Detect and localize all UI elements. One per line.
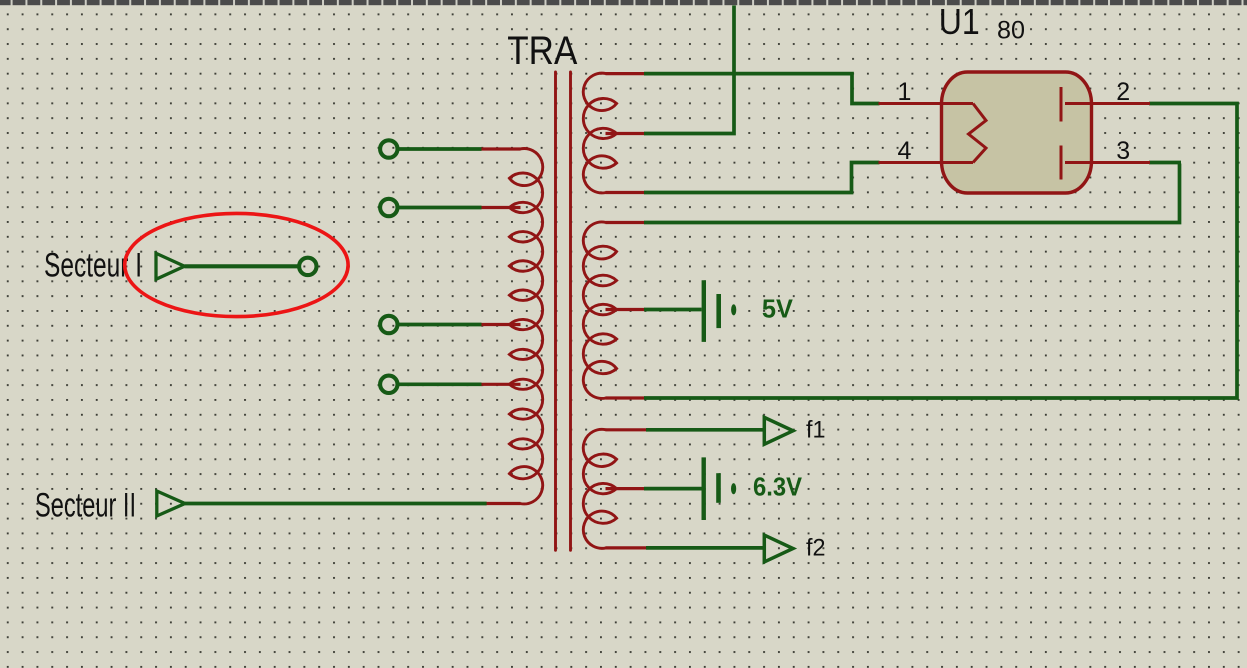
f2 output triangle bbox=[764, 535, 793, 562]
wire 5V bottom to tube pin 2 bbox=[644, 104, 1237, 399]
red wire into pin 1 bbox=[879, 102, 974, 105]
red highlight ellipse bbox=[125, 213, 348, 316]
TRA primary pin stub 1 bbox=[481, 147, 521, 150]
svg-text:4: 4 bbox=[898, 137, 912, 165]
tube U1 body bbox=[942, 72, 1092, 193]
TRA primary pin stub 3 bbox=[481, 323, 521, 326]
svg-text:1: 1 bbox=[898, 78, 912, 106]
svg-text:f1: f1 bbox=[806, 416, 826, 443]
primary terminal circle T2 bbox=[380, 199, 397, 216]
wire f1 bbox=[646, 428, 764, 432]
svg-text:2: 2 bbox=[1116, 78, 1130, 106]
wire 5V centre tap bbox=[644, 308, 702, 312]
svg-text:TRA: TRA bbox=[507, 29, 578, 73]
wire HT centre tap bbox=[644, 6, 734, 134]
U1 anode plate (pin 2) bbox=[1060, 87, 1063, 122]
battery cell B1 short plate bbox=[716, 294, 721, 328]
TRA primary winding bbox=[509, 149, 542, 504]
primary terminal circle T4 bbox=[380, 376, 397, 393]
wire HT top to tube pin 1 bbox=[644, 74, 880, 104]
primary terminal circle T1 bbox=[380, 140, 397, 157]
wire terminal T3 to TRA primary tap bbox=[398, 323, 482, 327]
TRA secondary HT winding bbox=[583, 73, 616, 193]
Secteur I wire bbox=[185, 264, 301, 268]
svg-text:Secteur II: Secteur II bbox=[35, 487, 136, 525]
top ruler bar bbox=[0, 0, 1247, 5]
Secteur I input triangle bbox=[156, 253, 185, 279]
TRA primary pin stub 2 bbox=[481, 206, 521, 209]
red wire pin 2 bbox=[1065, 102, 1150, 105]
Secteur II wire bbox=[185, 502, 487, 506]
primary terminal circle T3 bbox=[380, 316, 397, 333]
svg-text:U1: U1 bbox=[939, 1, 980, 42]
TRA secondary pin stub at y=429.8 bbox=[606, 428, 648, 431]
U1 anode plate (pin 3) bbox=[1060, 146, 1063, 180]
wire f2 bbox=[646, 546, 764, 550]
wire 6.3V centre tap bbox=[644, 487, 702, 491]
red wire pin 3 bbox=[1065, 161, 1150, 164]
red wire into pin 4 bbox=[879, 161, 974, 164]
TRA secondary pin stub at y=488.6 bbox=[606, 487, 648, 490]
svg-text:3: 3 bbox=[1116, 137, 1130, 165]
svg-text:5V: 5V bbox=[762, 294, 794, 324]
TRA secondary pin stub at y=398 bbox=[606, 396, 646, 399]
TRA secondary 6.3V winding bbox=[583, 429, 616, 548]
TRA primary pin stub 4 bbox=[481, 383, 521, 386]
TRA secondary pin stub at y=133.5 bbox=[606, 132, 646, 135]
Secteur I terminal circle bbox=[299, 258, 316, 275]
svg-text:80: 80 bbox=[997, 17, 1025, 45]
battery cell B1 dot bbox=[731, 304, 736, 315]
wire terminal T4 to TRA primary tap bbox=[398, 382, 482, 386]
TRA secondary 5V winding bbox=[583, 222, 616, 398]
TRA secondary pin stub at y=309.5 bbox=[606, 308, 646, 311]
wire 5V top to tube pin 3 bbox=[644, 164, 1180, 223]
Secteur II input triangle bbox=[157, 491, 185, 516]
wire terminal T1 to TRA primary tap bbox=[398, 147, 482, 151]
wire HT bottom to tube pin 4 bbox=[644, 163, 880, 193]
TRA secondary pin stub at y=547.9 bbox=[606, 546, 648, 549]
TRA secondary pin stub at y=73.6 bbox=[606, 72, 646, 75]
TRA secondary pin stub at y=222.5 bbox=[606, 221, 646, 224]
wire terminal T2 to TRA primary tap bbox=[398, 206, 482, 210]
svg-text:f2: f2 bbox=[806, 534, 826, 561]
U1 filament bbox=[969, 104, 987, 163]
battery cell B1 long plate bbox=[702, 280, 706, 342]
battery cell B2 dot bbox=[731, 483, 736, 494]
battery cell B2 short plate bbox=[716, 473, 721, 503]
f1 output triangle bbox=[764, 417, 793, 444]
transformer TRA core bbox=[554, 72, 557, 550]
battery cell B2 long plate bbox=[702, 457, 706, 520]
svg-text:6.3V: 6.3V bbox=[753, 472, 803, 502]
TRA secondary pin stub at y=192.5 bbox=[606, 191, 646, 194]
